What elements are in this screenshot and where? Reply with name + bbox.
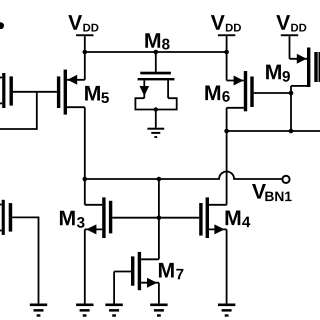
wire M7 source to ground <box>158 283 160 304</box>
wire M4 source to ground <box>226 229 228 303</box>
node junction rail-M8 <box>154 50 159 55</box>
node junction gates-M7 <box>157 215 162 220</box>
wire ML2 gate to ground <box>12 217 38 303</box>
wire VDD rail <box>85 51 227 53</box>
node stub dot (top-left, cut off) <box>0 22 4 29</box>
label VDD (supply 1) <box>68 15 98 31</box>
wire bias bus (M6 gate net) <box>227 130 320 132</box>
wire M6 gate line <box>254 92 291 94</box>
transistor ML2 (partial, bottom-left edge) <box>0 200 12 235</box>
ground (M7 gate) <box>105 304 122 317</box>
node junction M6drain-bias bus <box>224 129 229 134</box>
transistor M8 (MOS capacitor) <box>135 52 176 128</box>
node junction rail-M6 <box>224 50 229 55</box>
transistor M6 (PMOS) <box>227 71 254 111</box>
wire M3/M4 gate line <box>112 217 199 219</box>
wire M3 source to ground <box>84 229 86 303</box>
ground (M3 source) <box>76 304 93 317</box>
wire ML1 gate to M5 gate <box>13 91 57 93</box>
label M5 <box>85 86 109 103</box>
node junction bus-M5/M3 <box>83 177 88 182</box>
label M9 <box>266 65 290 82</box>
ground (M8) <box>147 128 164 138</box>
transistor M7 (NMOS) <box>114 252 159 290</box>
label M6 <box>205 86 229 102</box>
node junction M9drain-M6gate <box>289 91 294 96</box>
label M4 <box>226 211 251 228</box>
power VDD supply 1 <box>76 34 93 80</box>
label M7 <box>159 263 183 279</box>
wire M6 drain down to M4 drain <box>226 108 228 205</box>
label VBN1 <box>252 184 292 201</box>
wire bus down through gates to M7 drain <box>158 179 160 259</box>
ground (under ML2 gate wire) <box>30 304 47 317</box>
transistor M9 (PMOS, right edge) <box>290 48 320 88</box>
wire bus down to M3 drain <box>84 179 86 205</box>
label VDD (supply 3) <box>276 15 306 31</box>
wire M5 drain down to bus <box>84 107 86 179</box>
node junction bias bus-M9 <box>289 129 294 134</box>
wire VBN1 bus with hop <box>85 172 282 179</box>
label M3 <box>60 211 85 228</box>
label M8 <box>145 33 169 49</box>
transistor M3 (NMOS) <box>85 197 113 238</box>
power VDD supply 3 <box>281 34 298 59</box>
transistor ML1 (partial PMOS, top-left edge) <box>0 73 13 108</box>
power VDD supply 2 <box>218 34 235 80</box>
node junction bus-M7 <box>157 177 162 182</box>
transistor M4 (NMOS) <box>199 197 226 238</box>
wire gate-line tap down-left <box>0 92 37 129</box>
node junction rail-M5 <box>83 50 88 55</box>
node terminal VBN1 <box>282 176 289 183</box>
wire M7 gate to ground <box>113 272 115 304</box>
wire M9 drain to M6 gate junction <box>290 86 292 131</box>
ground (M4 source) <box>218 304 235 317</box>
ground (M7 source) <box>150 304 167 317</box>
transistor M5 (PMOS) <box>57 70 85 115</box>
label VDD (supply 2) <box>211 15 241 31</box>
